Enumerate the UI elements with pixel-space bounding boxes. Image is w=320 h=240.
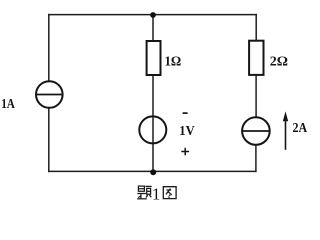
svg-text:1V: 1V bbox=[179, 122, 195, 138]
svg-text:1: 1 bbox=[152, 184, 161, 203]
svg-text:1Ω: 1Ω bbox=[165, 53, 182, 69]
svg-text:2Ω: 2Ω bbox=[270, 54, 288, 69]
svg-text:2A: 2A bbox=[293, 119, 308, 135]
svg-text:1A: 1A bbox=[1, 96, 15, 111]
